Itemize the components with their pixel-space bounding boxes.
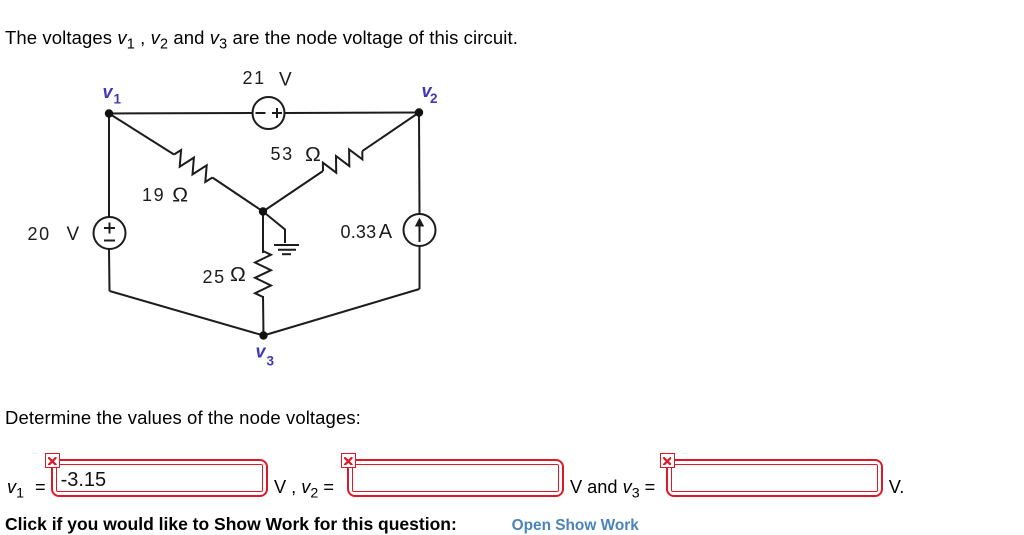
svg-text:V: V <box>67 224 80 245</box>
svg-text:v: v <box>103 82 114 102</box>
svg-text:3: 3 <box>267 354 275 369</box>
svg-text:V: V <box>279 70 292 91</box>
svg-text:19: 19 <box>142 185 165 205</box>
svg-text:Ω: Ω <box>172 185 188 207</box>
svg-text:0.33: 0.33 <box>341 222 377 242</box>
svg-text:Ω: Ω <box>305 144 321 166</box>
svg-text:53: 53 <box>271 144 294 164</box>
svg-text:25: 25 <box>203 267 226 287</box>
svg-text:1: 1 <box>114 92 122 107</box>
svg-text:Ω: Ω <box>230 264 246 286</box>
svg-text:2: 2 <box>430 91 438 106</box>
svg-text:A: A <box>379 221 393 243</box>
svg-text:20: 20 <box>28 224 51 244</box>
svg-text:v: v <box>256 342 267 362</box>
svg-text:21: 21 <box>243 68 266 88</box>
